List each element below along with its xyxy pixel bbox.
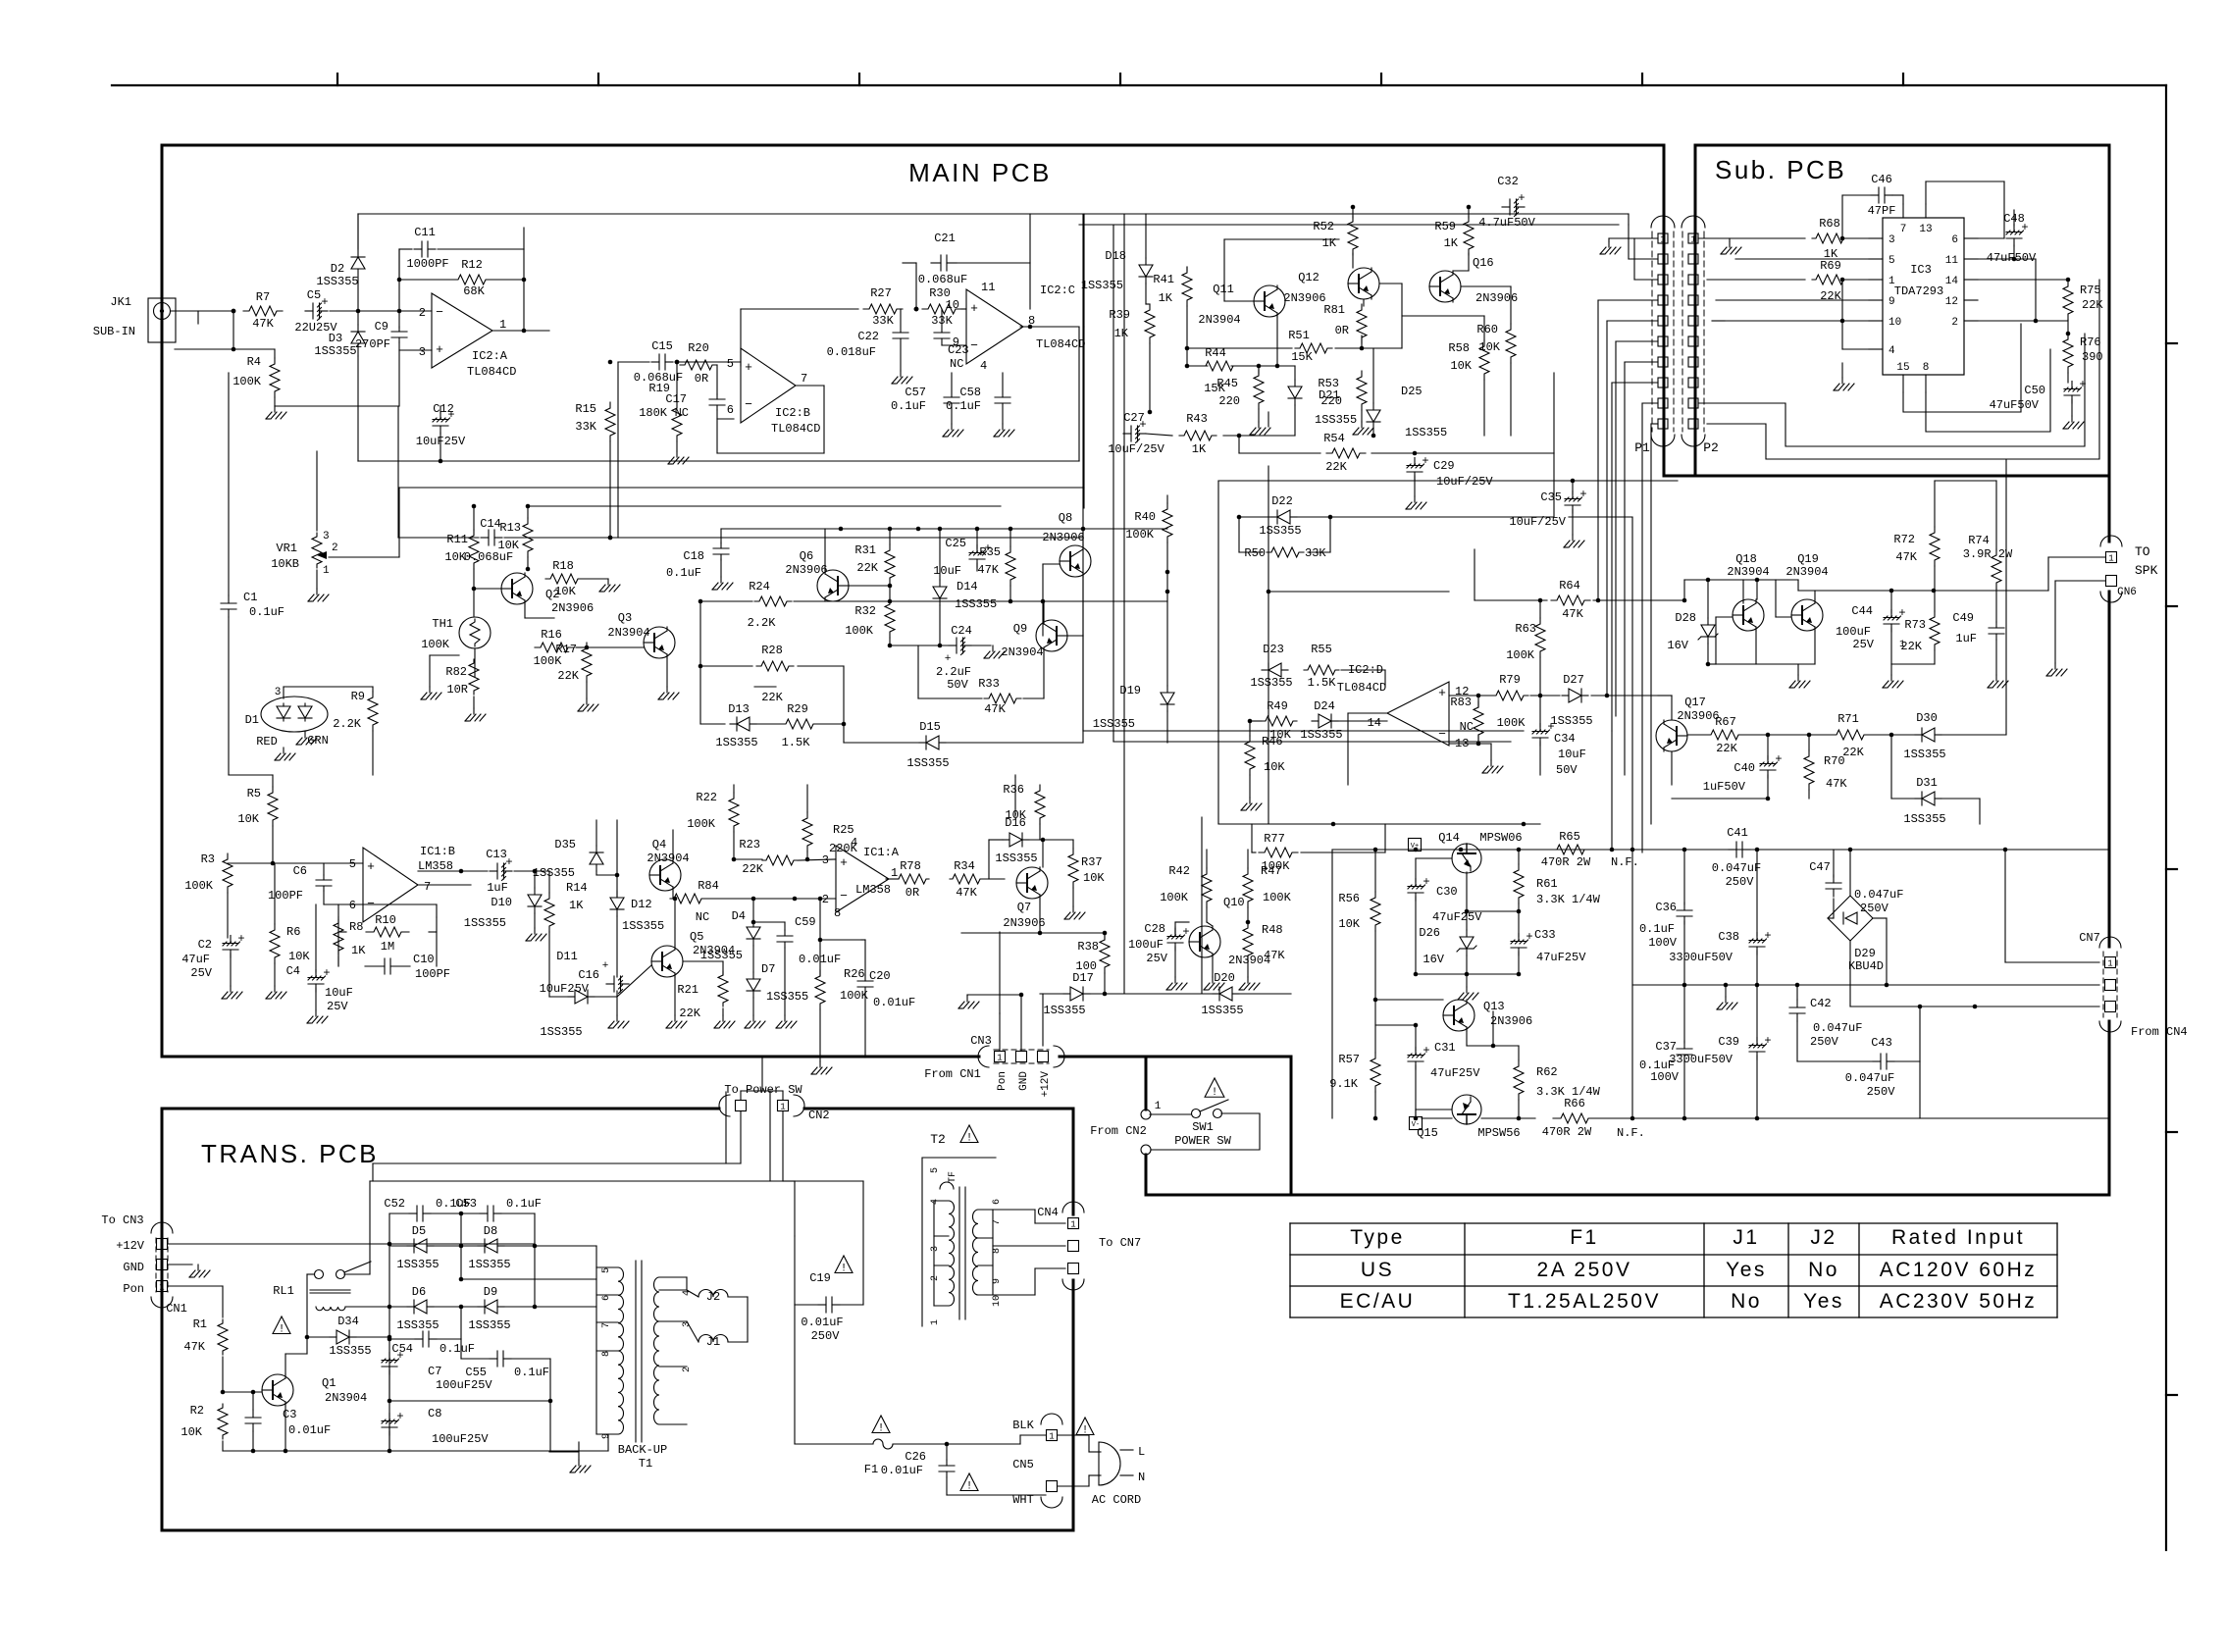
svg-text:100PF: 100PF: [268, 889, 303, 903]
svg-text:+: +: [840, 855, 848, 870]
svg-text:0.01uF: 0.01uF: [801, 1316, 843, 1329]
svg-text:C19: C19: [809, 1271, 831, 1285]
svg-text:47K: 47K: [977, 563, 999, 577]
svg-text:C17: C17: [665, 392, 687, 406]
svg-text:250V: 250V: [1860, 902, 1889, 915]
svg-text:3: 3: [275, 687, 282, 698]
svg-text:!: !: [966, 1481, 973, 1493]
svg-text:2.2uF: 2.2uF: [936, 665, 971, 679]
svg-text:0R: 0R: [695, 372, 708, 386]
svg-text:1: 1: [499, 318, 506, 332]
svg-text:Q7: Q7: [1017, 901, 1031, 914]
svg-text:KBU4D: KBU4D: [1848, 959, 1884, 973]
svg-text:Q12: Q12: [1298, 271, 1319, 284]
svg-text:+: +: [1526, 930, 1532, 944]
svg-text:0R: 0R: [1335, 324, 1349, 337]
svg-text:Q11: Q11: [1213, 283, 1234, 296]
svg-text:−: −: [745, 397, 752, 412]
svg-text:3: 3: [930, 1246, 941, 1252]
svg-text:D29: D29: [1854, 947, 1876, 960]
svg-text:R63: R63: [1515, 622, 1536, 636]
svg-text:C6: C6: [293, 864, 307, 878]
svg-text:220: 220: [1320, 394, 1342, 408]
svg-text:1SS355: 1SS355: [1903, 812, 1945, 826]
svg-text:47K: 47K: [1826, 777, 1847, 791]
svg-text:+: +: [436, 342, 443, 357]
svg-text:0.1uF: 0.1uF: [1639, 922, 1675, 936]
svg-text:2: 2: [822, 893, 829, 906]
svg-text:D31: D31: [1916, 776, 1938, 790]
svg-text:R21: R21: [677, 983, 699, 997]
svg-text:R15: R15: [575, 402, 596, 416]
svg-text:D28: D28: [1675, 611, 1696, 625]
svg-text:1: 1: [780, 1103, 785, 1112]
svg-text:C41: C41: [1727, 826, 1748, 840]
svg-text:8: 8: [834, 906, 841, 920]
svg-text:Yes: Yes: [1803, 1290, 1844, 1313]
svg-text:D4: D4: [732, 909, 746, 923]
svg-text:1SS355: 1SS355: [1043, 1004, 1085, 1017]
svg-text:D18: D18: [1105, 249, 1126, 263]
svg-text:−: −: [970, 338, 978, 353]
svg-text:R58: R58: [1448, 341, 1470, 355]
svg-text:AC120V 60Hz: AC120V 60Hz: [1880, 1259, 2038, 1281]
svg-text:3.3K 1/4W: 3.3K 1/4W: [1536, 893, 1601, 906]
svg-text:R69: R69: [1820, 259, 1841, 273]
svg-text:47uF50V: 47uF50V: [1990, 398, 2040, 412]
svg-text:0.01uF: 0.01uF: [288, 1423, 331, 1437]
svg-text:1: 1: [1049, 1432, 1054, 1442]
svg-text:N.F.: N.F.: [1611, 855, 1639, 869]
svg-text:F1: F1: [1570, 1226, 1599, 1249]
svg-text:0.1uF: 0.1uF: [891, 399, 926, 413]
svg-text:C42: C42: [1810, 997, 1832, 1010]
svg-text:22K: 22K: [2082, 298, 2103, 312]
svg-text:Q3: Q3: [618, 611, 632, 625]
svg-text:+: +: [1764, 929, 1771, 943]
svg-text:+: +: [945, 653, 952, 665]
svg-text:6: 6: [1951, 234, 1958, 246]
svg-text:+: +: [1423, 875, 1429, 889]
svg-text:IC2:C: IC2:C: [1040, 284, 1075, 297]
svg-text:R33: R33: [978, 677, 1000, 691]
svg-text:1: 1: [1070, 1220, 1075, 1230]
svg-text:22K: 22K: [679, 1007, 700, 1020]
svg-text:1: 1: [2108, 554, 2113, 564]
svg-text:C11: C11: [414, 226, 436, 239]
svg-text:R57: R57: [1338, 1053, 1360, 1066]
svg-text:+: +: [367, 859, 375, 874]
svg-text:From CN4: From CN4: [2131, 1025, 2188, 1039]
svg-text:D17: D17: [1072, 971, 1094, 985]
svg-text:C46: C46: [1871, 173, 1892, 186]
svg-text:D15: D15: [919, 720, 941, 734]
svg-text:10K: 10K: [1338, 917, 1360, 931]
svg-text:10K: 10K: [497, 539, 519, 552]
svg-text:Q14: Q14: [1438, 831, 1460, 845]
svg-text:C27: C27: [1123, 411, 1145, 425]
svg-text:16V: 16V: [1667, 639, 1688, 652]
svg-text:!: !: [1212, 1087, 1218, 1099]
svg-text:T2: T2: [930, 1132, 946, 1147]
svg-text:N.F.: N.F.: [1617, 1126, 1645, 1140]
svg-text:D35: D35: [554, 838, 576, 852]
svg-text:3: 3: [822, 853, 829, 867]
svg-text:R26: R26: [844, 967, 865, 981]
svg-text:3300uF50V: 3300uF50V: [1669, 951, 1733, 964]
svg-text:TF: TF: [948, 1171, 958, 1183]
svg-text:68K: 68K: [463, 284, 485, 298]
svg-text:Q4: Q4: [652, 838, 666, 852]
svg-text:3: 3: [323, 531, 330, 542]
svg-text:270PF: 270PF: [355, 337, 390, 351]
svg-text:TRANS. PCB: TRANS. PCB: [201, 1139, 379, 1168]
svg-text:2N3906: 2N3906: [785, 563, 827, 577]
svg-text:9.1K: 9.1K: [1329, 1077, 1359, 1091]
svg-text:To CN7: To CN7: [1099, 1236, 1141, 1250]
svg-text:C38: C38: [1718, 930, 1739, 944]
svg-text:0.047uF: 0.047uF: [1854, 888, 1903, 902]
svg-text:0.01uF: 0.01uF: [873, 996, 915, 1009]
svg-text:R77: R77: [1264, 832, 1285, 846]
svg-text:C16: C16: [578, 968, 599, 982]
svg-text:1K: 1K: [351, 944, 366, 957]
svg-text:C37: C37: [1655, 1040, 1677, 1054]
svg-text:P2: P2: [1703, 440, 1719, 455]
svg-text:Q10: Q10: [1223, 896, 1245, 909]
svg-text:NC: NC: [1460, 720, 1474, 734]
svg-text:R43: R43: [1186, 412, 1208, 426]
svg-text:C18: C18: [683, 549, 704, 563]
svg-text:D26: D26: [1419, 926, 1440, 940]
svg-text:100K: 100K: [845, 624, 874, 638]
svg-text:0.047uF: 0.047uF: [1813, 1021, 1862, 1035]
svg-text:CN2: CN2: [808, 1109, 830, 1122]
svg-text:22K: 22K: [1325, 460, 1347, 474]
svg-text:J2: J2: [1810, 1226, 1837, 1249]
svg-text:R52: R52: [1313, 220, 1334, 233]
svg-text:3: 3: [419, 345, 426, 359]
svg-text:TDA7293: TDA7293: [1894, 284, 1943, 298]
svg-text:15: 15: [1896, 362, 1909, 374]
svg-text:C52: C52: [384, 1197, 405, 1211]
svg-text:100K: 100K: [1263, 891, 1292, 904]
svg-text:4: 4: [980, 359, 987, 373]
svg-text:1: 1: [1660, 235, 1665, 245]
svg-text:22K: 22K: [1842, 746, 1864, 759]
svg-text:4: 4: [851, 836, 857, 850]
svg-text:C12: C12: [433, 402, 454, 416]
svg-text:D5: D5: [412, 1224, 426, 1238]
svg-text:22K: 22K: [1900, 640, 1922, 653]
svg-text:C44: C44: [1851, 604, 1873, 618]
svg-text:!: !: [279, 1324, 285, 1336]
svg-text:AC230V 50Hz: AC230V 50Hz: [1880, 1290, 2038, 1313]
svg-text:25V: 25V: [190, 966, 212, 980]
svg-text:1SS355: 1SS355: [329, 1344, 371, 1358]
svg-text:IC1:B: IC1:B: [420, 845, 455, 858]
svg-text:R61: R61: [1536, 877, 1558, 891]
svg-text:MPSW56: MPSW56: [1477, 1126, 1520, 1140]
svg-text:100K: 100K: [840, 989, 869, 1003]
svg-text:R17: R17: [555, 643, 577, 656]
svg-text:R71: R71: [1837, 712, 1859, 726]
svg-text:13: 13: [1919, 224, 1932, 235]
svg-text:NC: NC: [675, 406, 689, 420]
svg-text:1uF: 1uF: [1955, 632, 1977, 645]
svg-text:2N3906: 2N3906: [1490, 1014, 1532, 1028]
svg-text:7: 7: [424, 880, 431, 894]
svg-text:−: −: [840, 889, 848, 903]
svg-text:10K: 10K: [1264, 760, 1285, 774]
svg-text:22K: 22K: [557, 669, 579, 683]
svg-text:2N3904: 2N3904: [1001, 645, 1043, 659]
svg-text:1SS355: 1SS355: [533, 866, 575, 880]
svg-text:IC1:A: IC1:A: [863, 846, 900, 859]
svg-text:+: +: [970, 301, 978, 316]
svg-text:+: +: [1422, 454, 1428, 468]
svg-text:10uF: 10uF: [1558, 748, 1586, 761]
svg-text:1SS355: 1SS355: [316, 275, 358, 288]
svg-text:GND: GND: [123, 1261, 144, 1274]
svg-text:47K: 47K: [956, 886, 977, 900]
svg-text:Q9: Q9: [1013, 622, 1027, 636]
svg-text:1SS355: 1SS355: [955, 597, 997, 611]
svg-text:0.1uF: 0.1uF: [666, 566, 701, 580]
svg-text:JK1: JK1: [110, 295, 131, 309]
svg-text:2N3906: 2N3906: [1677, 709, 1719, 723]
svg-text:10K: 10K: [1478, 340, 1500, 354]
svg-text:47K: 47K: [1562, 607, 1583, 621]
svg-text:1SS355: 1SS355: [1081, 279, 1123, 292]
svg-text:100uF: 100uF: [1128, 938, 1164, 952]
svg-text:100K: 100K: [233, 375, 262, 388]
svg-text:J1: J1: [1733, 1226, 1759, 1249]
svg-text:2N3904: 2N3904: [1198, 313, 1240, 327]
svg-text:12: 12: [1945, 296, 1958, 308]
svg-text:0.1uF: 0.1uF: [946, 399, 981, 413]
svg-text:D16: D16: [1005, 816, 1026, 830]
svg-text:10KB: 10KB: [271, 557, 299, 571]
svg-text:−: −: [436, 305, 443, 320]
svg-text:TO: TO: [2135, 544, 2150, 559]
svg-text:+: +: [321, 295, 328, 309]
svg-text:C40: C40: [1733, 761, 1755, 775]
svg-text:1: 1: [1889, 276, 1895, 287]
svg-text:Q17: Q17: [1684, 696, 1706, 709]
svg-text:2N3904: 2N3904: [325, 1391, 367, 1405]
svg-text:C28: C28: [1144, 922, 1165, 936]
svg-text:100PF: 100PF: [415, 967, 450, 981]
svg-text:POWER SW: POWER SW: [1174, 1134, 1231, 1148]
svg-text:TL084CD: TL084CD: [1036, 337, 1085, 351]
svg-text:C35: C35: [1540, 490, 1562, 504]
svg-text:D11: D11: [556, 950, 578, 963]
svg-text:R83: R83: [1450, 696, 1472, 709]
svg-text:R32: R32: [854, 604, 876, 618]
svg-text:C15: C15: [651, 339, 673, 353]
svg-text:10K: 10K: [444, 550, 466, 564]
svg-text:V+: V+: [1411, 843, 1419, 851]
svg-text:2N3904: 2N3904: [1727, 565, 1769, 579]
svg-text:100V: 100V: [1650, 1070, 1680, 1084]
svg-text:EC/AU: EC/AU: [1340, 1290, 1416, 1313]
svg-text:250V: 250V: [1726, 875, 1755, 889]
svg-text:50V: 50V: [1556, 763, 1578, 777]
svg-text:+: +: [396, 1349, 403, 1363]
svg-text:22K: 22K: [1716, 742, 1737, 755]
svg-text:+12V: +12V: [116, 1239, 145, 1253]
svg-text:R79: R79: [1499, 673, 1521, 687]
svg-text:RL1: RL1: [273, 1284, 294, 1298]
svg-text:Rated Input: Rated Input: [1891, 1226, 2025, 1249]
svg-text:D6: D6: [412, 1285, 426, 1299]
svg-text:R42: R42: [1168, 864, 1190, 878]
svg-text:SPK: SPK: [2135, 563, 2158, 578]
svg-text:2N3906: 2N3906: [551, 601, 594, 615]
svg-text:SUB-IN: SUB-IN: [93, 325, 135, 338]
svg-text:1SS355: 1SS355: [314, 344, 356, 358]
svg-text:R65: R65: [1559, 830, 1580, 844]
svg-text:2: 2: [682, 1367, 693, 1372]
svg-text:WHT: WHT: [1012, 1493, 1034, 1507]
svg-text:R47: R47: [1261, 864, 1282, 878]
svg-text:CN6: CN6: [2117, 587, 2137, 598]
svg-text:1SS355: 1SS355: [622, 919, 664, 933]
svg-text:To CN3: To CN3: [101, 1213, 143, 1227]
svg-text:Q1: Q1: [322, 1376, 336, 1390]
svg-text:R59: R59: [1434, 220, 1456, 233]
svg-text:100K: 100K: [421, 638, 450, 651]
svg-text:22K: 22K: [856, 561, 878, 575]
svg-text:TH1: TH1: [432, 617, 453, 631]
svg-text:D3: D3: [329, 332, 342, 345]
svg-text:1: 1: [323, 565, 330, 577]
svg-text:1.5K: 1.5K: [1308, 676, 1337, 690]
svg-text:R72: R72: [1893, 533, 1915, 546]
svg-text:R74: R74: [1968, 534, 1990, 547]
svg-text:22K: 22K: [1820, 289, 1841, 303]
svg-text:25V: 25V: [1852, 638, 1874, 651]
svg-text:0.1uF: 0.1uF: [506, 1197, 542, 1211]
svg-text:R34: R34: [954, 859, 975, 873]
svg-text:C36: C36: [1655, 901, 1677, 914]
svg-text:47K: 47K: [1895, 550, 1917, 564]
svg-text:8: 8: [1923, 362, 1930, 374]
svg-text:!: !: [878, 1423, 885, 1435]
svg-text:250V: 250V: [811, 1329, 841, 1343]
svg-text:6: 6: [601, 1295, 612, 1301]
svg-text:Sub. PCB: Sub. PCB: [1715, 155, 1846, 184]
svg-text:250V: 250V: [1867, 1085, 1896, 1099]
svg-text:C26: C26: [905, 1450, 926, 1464]
svg-text:R1: R1: [193, 1317, 207, 1331]
svg-text:Pon: Pon: [123, 1282, 144, 1296]
svg-text:10K: 10K: [1083, 871, 1105, 885]
svg-text:D24: D24: [1314, 699, 1335, 713]
svg-text:C3: C3: [283, 1408, 296, 1421]
svg-text:D14: D14: [957, 580, 978, 594]
svg-text:Q13: Q13: [1483, 1000, 1505, 1013]
svg-text:R18: R18: [552, 559, 574, 573]
svg-text:15K: 15K: [1291, 350, 1313, 364]
svg-text:F1: F1: [864, 1463, 878, 1476]
svg-text:C58: C58: [959, 386, 981, 399]
svg-text:Q18: Q18: [1735, 552, 1757, 566]
svg-text:1SS355: 1SS355: [1201, 1004, 1243, 1017]
svg-text:2N3904: 2N3904: [647, 852, 689, 865]
svg-text:R64: R64: [1559, 579, 1580, 593]
svg-text:+: +: [1764, 1034, 1771, 1048]
svg-text:4.7uF50V: 4.7uF50V: [1478, 216, 1535, 230]
svg-text:C5: C5: [307, 288, 321, 302]
svg-text:100uF25V: 100uF25V: [436, 1378, 492, 1392]
svg-text:1SS355: 1SS355: [1550, 714, 1592, 728]
svg-text:100K: 100K: [687, 817, 716, 831]
svg-text:2N3906: 2N3906: [1283, 291, 1325, 305]
svg-text:470R 2W: 470R 2W: [1542, 1125, 1592, 1139]
svg-text:IC3: IC3: [1910, 263, 1932, 277]
svg-text:CN3: CN3: [970, 1034, 992, 1048]
svg-text:R2: R2: [190, 1404, 204, 1418]
svg-text:R20: R20: [688, 341, 709, 355]
svg-text:R76: R76: [2080, 336, 2101, 349]
svg-text:2: 2: [1951, 317, 1958, 329]
svg-text:D2: D2: [331, 262, 344, 276]
svg-text:R27: R27: [870, 286, 892, 300]
svg-text:C21: C21: [934, 232, 956, 245]
svg-text:R39: R39: [1109, 308, 1130, 322]
svg-text:2.2K: 2.2K: [333, 717, 362, 731]
svg-text:11: 11: [981, 281, 995, 294]
svg-text:R40: R40: [1134, 510, 1156, 524]
svg-text:1: 1: [930, 1319, 941, 1325]
svg-text:SW1: SW1: [1192, 1120, 1214, 1134]
svg-text:47uF50V: 47uF50V: [1987, 251, 2037, 265]
svg-text:D12: D12: [631, 898, 652, 911]
svg-text:220: 220: [1218, 394, 1240, 408]
svg-text:2N3904: 2N3904: [1785, 565, 1828, 579]
svg-text:22K: 22K: [742, 862, 763, 876]
svg-text:R31: R31: [854, 543, 876, 557]
svg-text:+: +: [1775, 752, 1782, 766]
svg-text:R14: R14: [566, 881, 588, 895]
svg-text:C24: C24: [951, 624, 972, 638]
svg-text:1SS355: 1SS355: [1300, 728, 1342, 742]
svg-text:C43: C43: [1871, 1036, 1892, 1050]
svg-text:2A 250V: 2A 250V: [1537, 1259, 1632, 1281]
svg-text:TL084CD: TL084CD: [467, 365, 516, 379]
svg-text:No: No: [1808, 1259, 1839, 1281]
svg-text:1SS355: 1SS355: [468, 1318, 510, 1332]
svg-text:C22: C22: [857, 330, 879, 343]
svg-text:1SS355: 1SS355: [1405, 426, 1447, 439]
svg-text:1M: 1M: [381, 940, 394, 954]
svg-text:R82: R82: [445, 665, 467, 679]
svg-text:2N3906: 2N3906: [1475, 291, 1518, 305]
svg-text:!: !: [966, 1133, 973, 1145]
svg-text:R8: R8: [349, 920, 363, 934]
svg-text:250V: 250V: [1810, 1035, 1839, 1049]
svg-text:47uF: 47uF: [181, 953, 210, 966]
svg-text:1uF50V: 1uF50V: [1703, 780, 1746, 794]
svg-text:1K: 1K: [569, 899, 584, 912]
svg-text:C49: C49: [1952, 611, 1974, 625]
svg-text:+: +: [1182, 925, 1189, 939]
svg-text:CN4: CN4: [1037, 1206, 1059, 1219]
svg-text:100K: 100K: [184, 879, 214, 893]
svg-text:1SS355: 1SS355: [396, 1258, 439, 1271]
